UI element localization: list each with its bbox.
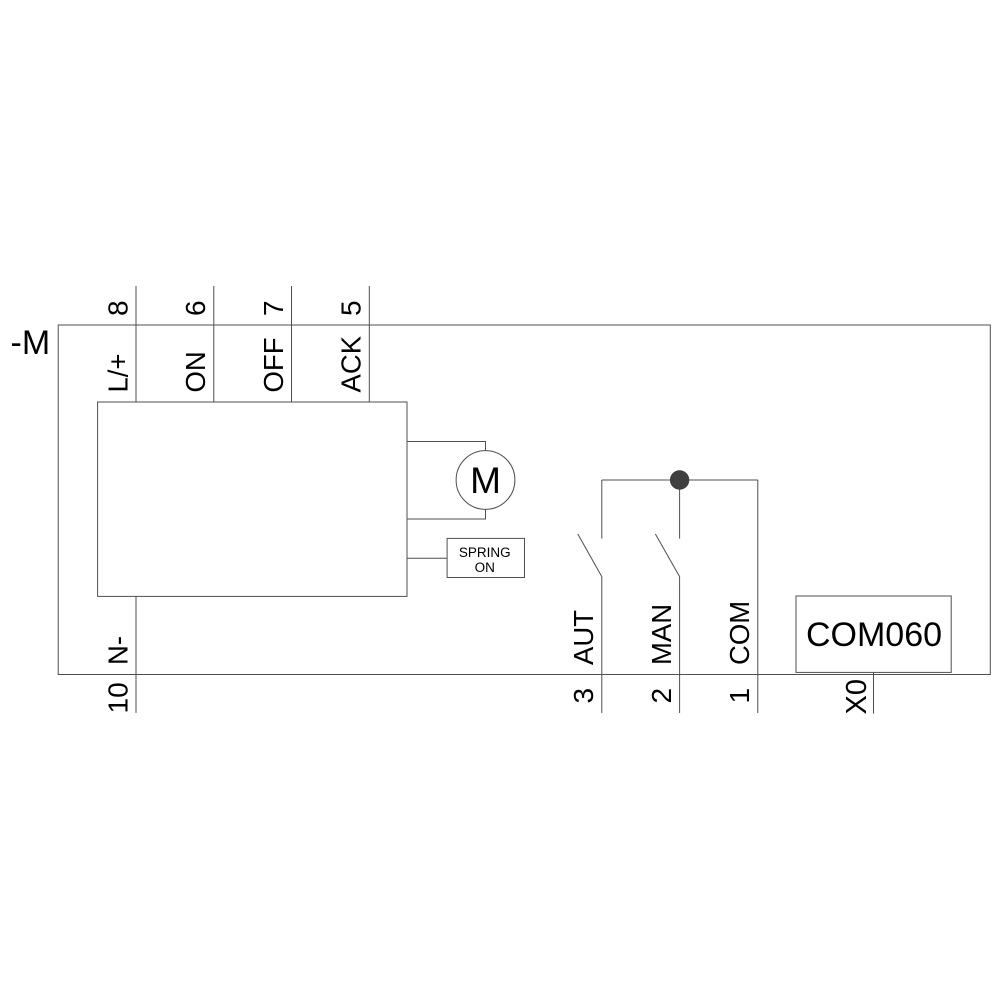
svg-text:OFF: OFF (258, 338, 289, 393)
svg-text:ON: ON (475, 560, 495, 575)
svg-text:MAN: MAN (646, 604, 677, 665)
svg-text:-M: -M (11, 324, 51, 362)
svg-text:COM: COM (724, 601, 755, 665)
svg-text:7: 7 (258, 300, 289, 316)
svg-text:3: 3 (568, 688, 599, 704)
svg-text:10: 10 (102, 682, 133, 713)
svg-text:AUT: AUT (568, 610, 599, 665)
svg-text:SPRING: SPRING (459, 545, 511, 560)
svg-text:M: M (470, 460, 501, 501)
svg-text:6: 6 (180, 300, 211, 316)
svg-text:ON: ON (180, 351, 211, 392)
svg-text:1: 1 (724, 688, 755, 704)
svg-text:2: 2 (646, 688, 677, 704)
svg-text:ACK: ACK (336, 335, 367, 392)
svg-text:X0: X0 (841, 679, 873, 714)
svg-text:8: 8 (102, 300, 133, 316)
svg-text:COM060: COM060 (806, 616, 942, 654)
svg-text:L/+: L/+ (102, 354, 133, 393)
svg-text:5: 5 (336, 300, 367, 316)
svg-text:N-: N- (102, 636, 133, 665)
